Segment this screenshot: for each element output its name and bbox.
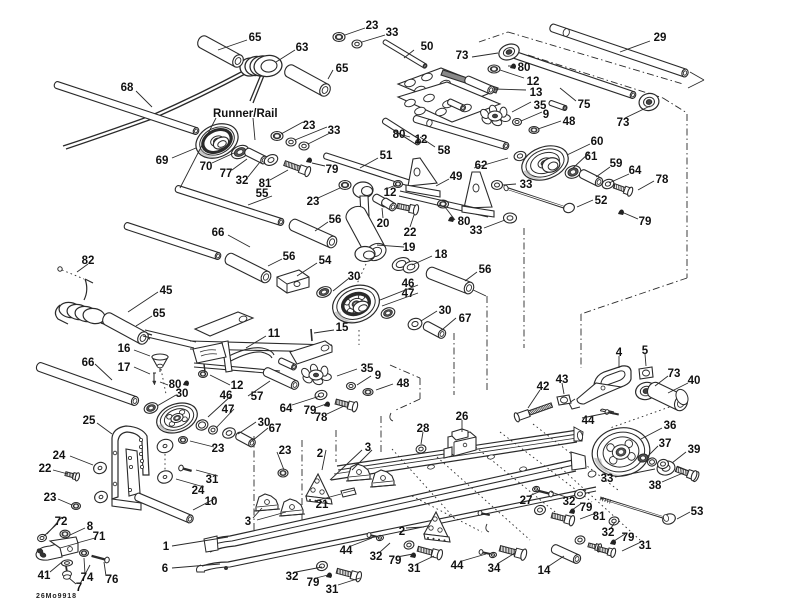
svg-text:56: 56 xyxy=(283,251,296,263)
svg-text:67: 67 xyxy=(269,423,282,435)
svg-text:25: 25 xyxy=(83,415,96,427)
svg-text:14: 14 xyxy=(538,565,551,577)
svg-text:49: 49 xyxy=(450,171,463,183)
svg-text:48: 48 xyxy=(397,378,410,390)
svg-text:75: 75 xyxy=(578,99,591,111)
svg-text:23: 23 xyxy=(44,492,57,504)
svg-text:32: 32 xyxy=(236,175,249,187)
svg-text:31: 31 xyxy=(408,563,421,575)
svg-text:32: 32 xyxy=(563,496,576,508)
svg-text:12: 12 xyxy=(231,380,244,392)
svg-text:52: 52 xyxy=(595,195,608,207)
svg-text:26Mo9918: 26Mo9918 xyxy=(36,593,76,600)
svg-text:64: 64 xyxy=(629,165,642,177)
svg-text:3: 3 xyxy=(245,516,251,528)
svg-text:61: 61 xyxy=(585,151,598,163)
svg-text:67: 67 xyxy=(459,313,472,325)
svg-text:68: 68 xyxy=(121,82,134,94)
svg-text:65: 65 xyxy=(336,63,349,75)
svg-text:23: 23 xyxy=(366,20,379,32)
svg-text:44: 44 xyxy=(340,545,353,557)
svg-text:1: 1 xyxy=(163,541,170,553)
svg-text:12: 12 xyxy=(384,187,397,199)
svg-text:22: 22 xyxy=(39,463,52,475)
svg-text:69: 69 xyxy=(156,155,169,167)
svg-text:34: 34 xyxy=(488,563,501,575)
svg-text:33: 33 xyxy=(601,473,614,485)
svg-text:23: 23 xyxy=(279,445,292,457)
svg-text:23: 23 xyxy=(212,443,225,455)
svg-text:79: 79 xyxy=(307,577,320,589)
svg-text:70: 70 xyxy=(200,161,213,173)
svg-text:24: 24 xyxy=(53,450,66,462)
svg-text:48: 48 xyxy=(563,116,576,128)
svg-text:39: 39 xyxy=(688,444,701,456)
svg-text:79: 79 xyxy=(326,164,339,176)
svg-text:19: 19 xyxy=(403,242,416,254)
svg-text:33: 33 xyxy=(470,225,483,237)
svg-text:76: 76 xyxy=(106,574,119,586)
svg-text:51: 51 xyxy=(380,150,393,162)
svg-text:73: 73 xyxy=(668,368,681,380)
svg-text:33: 33 xyxy=(520,179,533,191)
svg-text:22: 22 xyxy=(404,227,417,239)
svg-text:41: 41 xyxy=(38,570,51,582)
svg-text:80: 80 xyxy=(518,62,531,74)
svg-text:17: 17 xyxy=(118,362,131,374)
svg-text:20: 20 xyxy=(377,218,390,230)
svg-text:9: 9 xyxy=(543,109,549,121)
svg-text:12: 12 xyxy=(415,134,428,146)
svg-text:23: 23 xyxy=(307,196,320,208)
svg-text:65: 65 xyxy=(249,32,262,44)
svg-text:78: 78 xyxy=(656,174,669,186)
svg-text:32: 32 xyxy=(370,551,383,563)
svg-text:Runner/Rail: Runner/Rail xyxy=(213,108,278,120)
svg-text:21: 21 xyxy=(316,499,329,511)
svg-text:18: 18 xyxy=(435,249,448,261)
svg-text:73: 73 xyxy=(617,117,630,129)
svg-text:79: 79 xyxy=(639,216,652,228)
svg-text:74: 74 xyxy=(81,572,94,584)
svg-text:63: 63 xyxy=(296,42,309,54)
svg-text:40: 40 xyxy=(688,375,701,387)
svg-text:73: 73 xyxy=(456,50,469,62)
svg-text:31: 31 xyxy=(326,584,339,596)
svg-text:42: 42 xyxy=(537,381,550,393)
svg-text:30: 30 xyxy=(439,305,452,317)
svg-text:38: 38 xyxy=(649,480,662,492)
svg-text:59: 59 xyxy=(610,158,623,170)
svg-text:30: 30 xyxy=(176,388,189,400)
svg-text:35: 35 xyxy=(361,363,374,375)
svg-text:64: 64 xyxy=(280,403,293,415)
svg-text:15: 15 xyxy=(336,322,349,334)
svg-text:80: 80 xyxy=(458,216,471,228)
svg-text:2: 2 xyxy=(317,448,323,460)
svg-text:23: 23 xyxy=(303,120,316,132)
svg-text:33: 33 xyxy=(328,125,341,137)
svg-text:50: 50 xyxy=(421,41,434,53)
svg-text:66: 66 xyxy=(212,227,225,239)
svg-text:16: 16 xyxy=(118,343,131,355)
svg-text:9: 9 xyxy=(375,370,381,382)
svg-text:36: 36 xyxy=(664,420,677,432)
svg-text:27: 27 xyxy=(520,495,533,507)
svg-text:44: 44 xyxy=(451,560,464,572)
svg-text:56: 56 xyxy=(479,264,492,276)
svg-text:6: 6 xyxy=(162,563,168,575)
svg-text:32: 32 xyxy=(602,527,615,539)
svg-text:71: 71 xyxy=(93,531,106,543)
svg-text:56: 56 xyxy=(329,214,342,226)
svg-text:60: 60 xyxy=(591,136,604,148)
svg-text:28: 28 xyxy=(417,423,430,435)
svg-text:58: 58 xyxy=(438,145,451,157)
svg-text:66: 66 xyxy=(82,357,95,369)
svg-text:65: 65 xyxy=(153,308,166,320)
svg-text:7: 7 xyxy=(76,582,82,594)
svg-text:11: 11 xyxy=(268,328,281,340)
svg-text:45: 45 xyxy=(160,285,173,297)
svg-text:29: 29 xyxy=(654,32,667,44)
svg-text:30: 30 xyxy=(348,271,361,283)
svg-text:53: 53 xyxy=(691,506,704,518)
svg-text:82: 82 xyxy=(82,255,95,267)
svg-text:54: 54 xyxy=(319,255,332,267)
svg-text:81: 81 xyxy=(593,511,606,523)
svg-text:79: 79 xyxy=(622,532,635,544)
svg-text:32: 32 xyxy=(286,571,299,583)
svg-text:13: 13 xyxy=(530,87,543,99)
svg-text:78: 78 xyxy=(315,412,328,424)
svg-text:33: 33 xyxy=(386,27,399,39)
svg-text:37: 37 xyxy=(659,438,672,450)
svg-text:77: 77 xyxy=(220,168,233,180)
svg-text:2: 2 xyxy=(399,526,405,538)
